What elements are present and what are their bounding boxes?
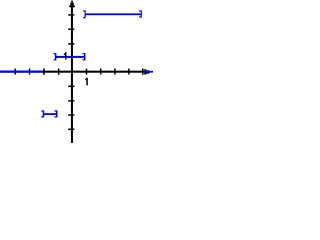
y tick -4	[68, 129, 74, 131]
x tick 4	[128, 69, 130, 75]
bracket closed at right of y=1 segment	[82, 53, 85, 60]
x tick 2	[100, 69, 102, 75]
y tick -3	[68, 114, 74, 116]
bracket closed at right of y=4 segment	[139, 10, 142, 17]
segment y=4	[85, 13, 141, 15]
y-axis arrowhead	[69, 1, 75, 8]
y tick 1	[68, 56, 74, 58]
bracket open at left of y=1 segment	[54, 53, 57, 60]
segment y=-3	[44, 113, 57, 115]
x-axis	[0, 71, 146, 73]
x-axis arrowhead	[144, 69, 149, 74]
bracket open at left of y=-3 segment	[41, 110, 44, 117]
bracket open at left of y=4 segment	[83, 10, 86, 18]
x tick 5	[142, 69, 144, 75]
y-axis label 1	[64, 52, 67, 59]
x-axis label 1	[85, 78, 88, 86]
segment y=0 left	[0, 71, 43, 73]
y tick 4	[68, 14, 74, 16]
x tick -1	[58, 69, 60, 75]
y tick 2	[68, 43, 74, 45]
y tick -1	[68, 86, 74, 88]
x tick -2	[43, 68, 45, 74]
y tick 3	[68, 29, 74, 31]
segment y=0 right	[143, 71, 153, 73]
x tick 1	[86, 69, 88, 75]
x tick -4	[14, 69, 16, 75]
y-axis	[71, 3, 73, 143]
x tick -3	[29, 69, 31, 75]
bracket closed at right of y=-3 segment	[55, 110, 58, 117]
segment y=1	[56, 56, 85, 58]
y tick -2	[68, 100, 74, 102]
x tick 3	[114, 69, 116, 75]
